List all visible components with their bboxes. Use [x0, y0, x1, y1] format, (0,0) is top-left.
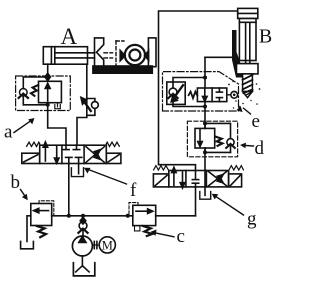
svg-text:g: g: [247, 209, 257, 230]
svg-text:e: e: [252, 111, 260, 132]
svg-text:B: B: [259, 26, 272, 48]
svg-text:f: f: [130, 180, 137, 201]
svg-text:a: a: [4, 122, 13, 143]
svg-text:c: c: [177, 226, 185, 247]
svg-text:d: d: [255, 138, 265, 159]
svg-text:M: M: [102, 238, 113, 252]
svg-text:b: b: [11, 172, 21, 193]
svg-text:A: A: [60, 24, 77, 49]
